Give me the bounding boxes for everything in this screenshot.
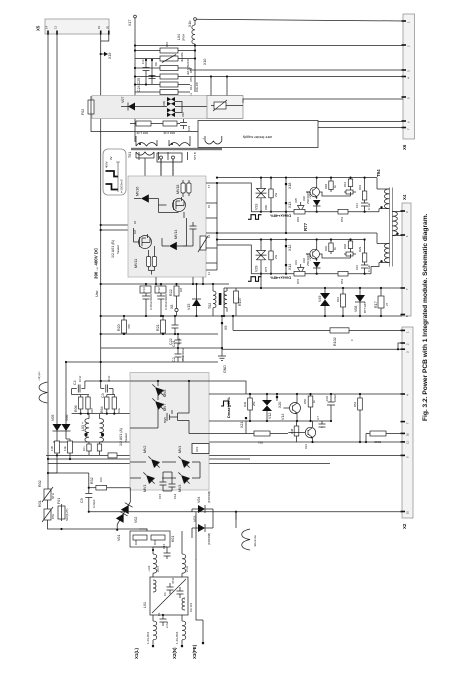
wire X5 pin20 jog: [101, 34, 109, 41]
node X9: [221, 316, 223, 322]
capacitor C14: [169, 472, 178, 499]
svg-text:2mH: 2mH: [185, 566, 189, 572]
svg-text:F02: F02: [81, 109, 85, 115]
svg-text:2.2uF: 2.2uF: [165, 621, 169, 628]
feeder transformer winding: [205, 141, 222, 144]
transistor V32: [302, 238, 320, 266]
svg-text:X17: X17: [128, 20, 132, 26]
varistor box: [207, 96, 243, 119]
resistor R57: [338, 209, 348, 222]
svg-text:10nF: 10nF: [78, 375, 82, 382]
svg-text:R51: R51: [340, 278, 344, 284]
notch box U01: [192, 444, 209, 454]
svg-text:100: 100: [99, 477, 103, 482]
wire k01 drops: [139, 529, 182, 547]
diode V35: [294, 198, 304, 212]
svg-text:R32: R32: [90, 477, 94, 484]
svg-text:10E,2W: 10E,2W: [195, 82, 199, 92]
svg-text:18: 18: [133, 220, 137, 224]
resistor R61: [343, 177, 353, 191]
fuse F02: [88, 100, 94, 114]
node X21: [245, 417, 247, 419]
pin 13: [56, 31, 58, 35]
svg-text:C26: C26: [325, 395, 329, 401]
waveform legend box: [103, 149, 126, 195]
svg-text:R12: R12: [189, 84, 193, 90]
svg-text:X2: X2: [402, 523, 407, 529]
wire 433 rail: [359, 441, 361, 443]
resistor bottom rail: [108, 453, 117, 458]
svg-text:T94: T94: [376, 169, 381, 177]
resistor R52: [353, 393, 362, 442]
svg-text:47nF: 47nF: [181, 354, 185, 361]
svg-text:GND: GND: [223, 365, 227, 373]
transformer T94: [371, 169, 403, 267]
transistor V21: [288, 421, 315, 449]
svg-text:47K: 47K: [127, 324, 131, 329]
svg-text:X8: X8: [170, 305, 174, 309]
capacitor C18: [153, 543, 171, 559]
diode V09: [167, 97, 175, 106]
diode V15: [187, 283, 201, 317]
wire bus 442: [53, 441, 402, 443]
diode V01: [116, 511, 128, 541]
IC block A01(B): [128, 176, 206, 277]
varistor blockB edge: [200, 236, 206, 250]
node X20: [276, 394, 278, 401]
svg-text:0.47uF/160V: 0.47uF/160V: [149, 294, 153, 310]
capacitor C23: [180, 119, 187, 129]
svg-text:X19: X19: [108, 53, 112, 59]
capacitor C17: [355, 200, 371, 212]
svg-text:X9: X9: [224, 326, 228, 330]
diode MV7: [150, 396, 167, 413]
svg-text:10nF: 10nF: [107, 375, 111, 382]
svg-text:100uF: 100uF: [333, 394, 337, 402]
wire PFC mid rail: [72, 413, 130, 415]
svg-text:(CR1998): (CR1998): [207, 533, 211, 545]
capacitor C5: [177, 587, 187, 600]
svg-text:1-4/L-B06: 1-4/L-B06: [175, 631, 179, 644]
svg-text:V09: V09: [162, 101, 166, 106]
wire X4 pin8 rail: [223, 288, 225, 316]
wire PFC top rail: [85, 380, 130, 382]
svg-text:X14: X14: [288, 264, 292, 270]
svg-text:X12: X12: [288, 245, 292, 251]
node X19: [100, 53, 102, 55]
crystal pair MV18: [181, 183, 185, 193]
Dmax 95%: [221, 401, 231, 406]
wire blockA top rail: [130, 380, 209, 382]
svg-text:V12: V12: [268, 413, 272, 419]
svg-text:C1: C1: [157, 612, 161, 616]
wire PE drop: [192, 509, 196, 560]
svg-text:R61: R61: [343, 181, 347, 187]
connector X5: [36, 19, 110, 35]
svg-text:R105: R105: [374, 440, 381, 444]
svg-text:0V: 0V: [109, 156, 113, 160]
resistor R51: [246, 421, 288, 445]
wire bus 455: [46, 454, 402, 456]
svg-text:V33: V33: [255, 204, 259, 210]
gray protection strip: [92, 96, 242, 119]
svg-text:V02: V02: [134, 517, 138, 523]
svg-text:C11: C11: [355, 203, 359, 208]
wire bus 317: [101, 315, 402, 317]
wire X17 down: [134, 18, 136, 142]
capacitor C13: [140, 283, 153, 317]
svg-text:1/2 A01 (A): 1/2 A01 (A): [119, 428, 123, 446]
wire bus 366: [66, 361, 218, 363]
resistor R76: [294, 271, 305, 284]
wire C9 to PE rail: [89, 511, 196, 513]
svg-text:+V30: +V30: [308, 254, 312, 261]
resistor R91: [358, 177, 367, 201]
resistor R50: [303, 393, 316, 421]
diode V34: [308, 192, 321, 212]
svg-text:R60: R60: [324, 245, 328, 251]
transistor V13: [284, 393, 301, 421]
svg-text:MV4: MV4: [178, 446, 182, 453]
svg-text:MV7: MV7: [163, 404, 167, 411]
svg-text:C4: C4: [73, 380, 77, 385]
wire PE rail: [196, 509, 402, 528]
resistor R10: [135, 46, 195, 93]
svg-text:Sealed: Sealed: [116, 245, 120, 254]
svg-text:11: 11: [207, 272, 211, 275]
sine symbol left: [37, 371, 47, 403]
diode V12 bidirectional: [262, 393, 272, 421]
pin 19: [100, 31, 102, 35]
svg-text:Dmax+48%: Dmax+48%: [270, 276, 291, 281]
wire to blockB pin: [101, 224, 128, 226]
resistor R21: [156, 315, 166, 335]
wires blockB mesh1: [149, 199, 185, 219]
svg-text:K01: K01: [171, 536, 175, 542]
diode V49 bidirectional: [318, 287, 330, 317]
node X14: [285, 264, 287, 266]
svg-text:V14: V14: [281, 414, 285, 420]
resistor R12: [135, 84, 190, 86]
svg-text:X3(PE): X3(PE): [192, 644, 197, 659]
svg-text:R20: R20: [117, 324, 121, 331]
svg-text:25k: 25k: [252, 401, 256, 406]
svg-text:2%: 2%: [274, 192, 278, 197]
mosfet MV17: [173, 197, 186, 212]
svg-text:V03: V03: [193, 516, 197, 522]
connector X3: [401, 327, 414, 529]
svg-text:R21: R21: [156, 324, 160, 331]
capacitor C10: [355, 262, 371, 274]
node 317: [100, 315, 102, 317]
svg-text:U01: U01: [195, 446, 199, 452]
svg-text:MV11: MV11: [134, 259, 138, 268]
diode MV2: [146, 454, 163, 471]
wire to blockB pin2: [101, 229, 128, 231]
svg-text:R48: R48: [290, 428, 294, 434]
wire rail 394: [220, 393, 402, 395]
svg-text:X20: X20: [278, 402, 282, 408]
wire bus 348: [101, 347, 222, 349]
svg-text:V08: V08: [354, 306, 358, 312]
resistor R32: [48, 473, 130, 490]
svg-text:R81: R81: [296, 216, 300, 222]
wire bus 351: [101, 333, 218, 335]
resistor R20: [117, 315, 131, 335]
wire bus 459: [48, 458, 251, 460]
svg-text:19: 19: [97, 25, 101, 29]
thermistor R01: [38, 500, 55, 522]
capacitor C15: [158, 472, 167, 499]
svg-text:3kE/1%: 3kE/1%: [180, 52, 184, 62]
svg-text:V05: V05: [51, 415, 55, 421]
svg-text:MV18: MV18: [176, 185, 180, 194]
svg-text:C6: C6: [163, 592, 167, 596]
svg-text:4.7nF: 4.7nF: [177, 338, 181, 345]
resistor R75: [264, 238, 278, 274]
diode V04: [192, 491, 213, 513]
svg-text:C9: C9: [80, 498, 84, 503]
wire X3 pin2-3 bracket: [222, 324, 402, 349]
Dmax+48% lower: [248, 277, 262, 282]
diode MV16: [141, 195, 149, 203]
wire mosfet net: [178, 381, 210, 434]
svg-text:X1b: X1b: [188, 21, 192, 27]
resistor R54: [135, 67, 190, 69]
svg-text:MV14: MV14: [174, 230, 178, 239]
svg-text:Fig. 3.2. Power PCB with 1 Int: Fig. 3.2. Power PCB with 1 Integrated mo…: [422, 213, 429, 421]
svg-text:t=10/20mS: t=10/20mS: [120, 179, 124, 193]
svg-text:11E: 11E: [63, 446, 67, 451]
wires T01 to blockB: [136, 152, 173, 176]
resistor R51a: [344, 190, 356, 194]
svg-text:X18: X18: [288, 183, 292, 189]
svg-text:2R0A: 2R0A: [182, 34, 186, 41]
wire DC line to PFC rail: [100, 362, 102, 381]
resistor pair R06: [72, 389, 94, 414]
svg-text:X13: X13: [288, 202, 292, 208]
inductor L02b: [182, 547, 189, 577]
resistor R14: [63, 439, 73, 460]
svg-text:10E: 10E: [117, 408, 121, 413]
svg-text:C16: C16: [162, 543, 166, 549]
svg-text:15: 15: [207, 204, 211, 208]
svg-text:C21: C21: [172, 340, 176, 347]
capacitor C4: [72, 375, 85, 392]
diode V31: [294, 260, 304, 274]
pin 14: [47, 31, 49, 35]
svg-text:Uac: Uac: [95, 290, 99, 297]
wire R02-R01: [47, 500, 49, 509]
Dmax+48% upper: [248, 215, 262, 220]
svg-text:R02: R02: [38, 480, 42, 487]
resistor L03a: [82, 442, 91, 455]
svg-text:C2: C2: [172, 357, 176, 362]
node X1b: [194, 18, 197, 21]
inductor X2N coil: [175, 615, 186, 645]
svg-text:Fix 101: Fix 101: [189, 602, 193, 612]
resistor pair R64: [100, 395, 121, 414]
wire varistor up taps: [211, 77, 227, 96]
svg-text:17: 17: [207, 184, 211, 188]
capacitor C22: [169, 315, 181, 345]
node junction 225: [100, 224, 102, 226]
diode MV4: [176, 454, 193, 471]
svg-text:4.7: 4.7: [316, 416, 320, 420]
wire feeder to X6 pin6: [318, 120, 403, 123]
svg-text:X10: X10: [203, 59, 207, 65]
wire row 46.5 to X6 pin2: [135, 45, 403, 47]
svg-text:10: 10: [406, 432, 410, 436]
terminal X3(PE): [202, 625, 204, 643]
svg-text:X21: X21: [240, 422, 244, 428]
svg-text:R31: R31: [153, 539, 157, 545]
svg-text:X07: X07: [90, 408, 94, 413]
svg-text:R50: R50: [303, 398, 307, 404]
resistor R105: [365, 431, 402, 444]
capacitor C26: [325, 393, 337, 421]
svg-text:R53: R53: [189, 76, 193, 82]
svg-text:27: 27: [385, 302, 389, 306]
svg-text:V01: V01: [117, 535, 121, 541]
resistor R51b: [344, 252, 356, 256]
svg-text:S10(6,2T): S10(6,2T): [65, 508, 69, 521]
svg-text:C12: C12: [157, 287, 161, 293]
node X8: [175, 308, 178, 311]
svg-text:+V34: +V34: [308, 192, 312, 199]
svg-text:R107: R107: [238, 297, 242, 306]
svg-text:R06: R06: [74, 405, 78, 412]
svg-text:9TH: 9TH: [51, 514, 55, 519]
svg-text:X6: X6: [402, 144, 407, 150]
resistor R90: [264, 177, 278, 213]
svg-text:R10: R10: [165, 41, 169, 47]
svg-text:V07: V07: [121, 97, 125, 103]
thermistor R02: [38, 480, 55, 502]
wire bottom left rail: [48, 520, 148, 529]
resistor R81: [294, 209, 305, 222]
blockB pin stubs left: [131, 225, 133, 230]
wire rail 421: [246, 420, 331, 422]
svg-text:C1d: C1d: [173, 493, 177, 499]
svg-text:V21: V21: [304, 444, 308, 449]
svg-text:1/2 A01 (B): 1/2 A01 (B): [111, 240, 115, 258]
IC block A01(A): [130, 373, 209, 491]
svg-text:R22: R22: [169, 289, 173, 296]
mosfet MV11: [134, 234, 152, 268]
node X12: [285, 240, 287, 274]
svg-text:R51: R51: [340, 216, 344, 222]
svg-text:C13: C13: [142, 287, 146, 293]
diode V03: [192, 516, 213, 545]
svg-text:R01: R01: [38, 500, 42, 507]
wire R77 feed: [217, 233, 377, 244]
transformer T02: [208, 283, 227, 316]
node 284: [100, 283, 102, 285]
resistor R22: [169, 283, 183, 316]
svg-text:R77: R77: [303, 222, 308, 231]
wire upper rail: [217, 178, 377, 270]
svg-text:X1(L): X1(L): [134, 647, 139, 659]
svg-text:0.1uF: 0.1uF: [367, 265, 371, 272]
transformer T01: [128, 136, 222, 160]
capacitor C9: [80, 487, 96, 512]
wire X5 pin19 down: [100, 34, 102, 362]
resistor R9 trimmer: [135, 58, 195, 60]
svg-text:MV8: MV8: [163, 390, 167, 397]
svg-text:Sealed: Sealed: [124, 433, 128, 442]
sine symbol bottom: [236, 512, 257, 550]
transformer T01 aux rect: [157, 153, 182, 177]
svg-text:C10: C10: [355, 264, 359, 270]
wires blockA lower mesh: [130, 462, 200, 491]
diode V30: [308, 254, 321, 274]
svg-text:400V: 400V: [105, 161, 109, 168]
mosfet MV5: [163, 410, 178, 423]
wire X5 pin13 down: [56, 34, 58, 422]
svg-text:V35: V35: [294, 198, 298, 203]
wire F02 down-left feed: [91, 118, 198, 132]
wire bus Uac 284: [101, 283, 229, 285]
capacitor C3: [101, 375, 113, 398]
svg-text:2%: 2%: [274, 254, 278, 259]
svg-text:R82: R82: [324, 183, 328, 189]
svg-text:Dmax* 95%: Dmax* 95%: [226, 396, 231, 418]
inductor L02a: [147, 547, 160, 577]
svg-text:R52: R52: [353, 401, 357, 407]
wire bus 465: [48, 463, 331, 465]
svg-text:R9: R9: [154, 62, 158, 66]
fuse F01: [57, 498, 69, 521]
wire upper mid rail: [217, 183, 379, 212]
resistor R102: [232, 315, 402, 346]
resistor R65: [136, 121, 151, 126]
varistor R201: [214, 102, 226, 109]
svg-text:R49: R49: [243, 401, 247, 407]
svg-text:C23: C23: [187, 125, 191, 131]
diode V05: [51, 415, 62, 439]
svg-text:R17: R17: [374, 301, 378, 308]
svg-text:R65 1.2K: R65 1.2K: [136, 131, 148, 135]
svg-text:MV5: MV5: [163, 417, 167, 423]
wire base feed lower: [306, 254, 351, 258]
resistor R29: [358, 238, 367, 262]
connector X4: [401, 194, 412, 317]
wire lower mid rail: [217, 245, 371, 274]
capacitor C1: [157, 612, 169, 628]
wire strip to X6 pin5: [243, 99, 403, 103]
resistor R66: [163, 121, 177, 126]
wires blockB mesh2: [134, 218, 194, 275]
svg-text:F01: F01: [57, 498, 61, 504]
diode MV14: [169, 242, 177, 250]
svg-text:X4: X4: [402, 194, 407, 200]
svg-text:MV2: MV2: [143, 446, 147, 453]
capacitor C12: [155, 283, 168, 317]
svg-text:NTH: NTH: [51, 493, 55, 499]
svg-text:13: 13: [207, 234, 211, 238]
lower rail: [217, 239, 365, 241]
node junction 230: [100, 229, 102, 231]
feeder supply box: [198, 121, 318, 148]
capacitor C21: [172, 333, 185, 362]
svg-text:R91: R91: [358, 184, 362, 190]
svg-text:R75: R75: [264, 266, 268, 272]
resistor R107: [234, 288, 243, 316]
svg-text:13: 13: [54, 25, 58, 29]
resistor R15: [50, 439, 60, 457]
inductor L03: [81, 414, 104, 442]
